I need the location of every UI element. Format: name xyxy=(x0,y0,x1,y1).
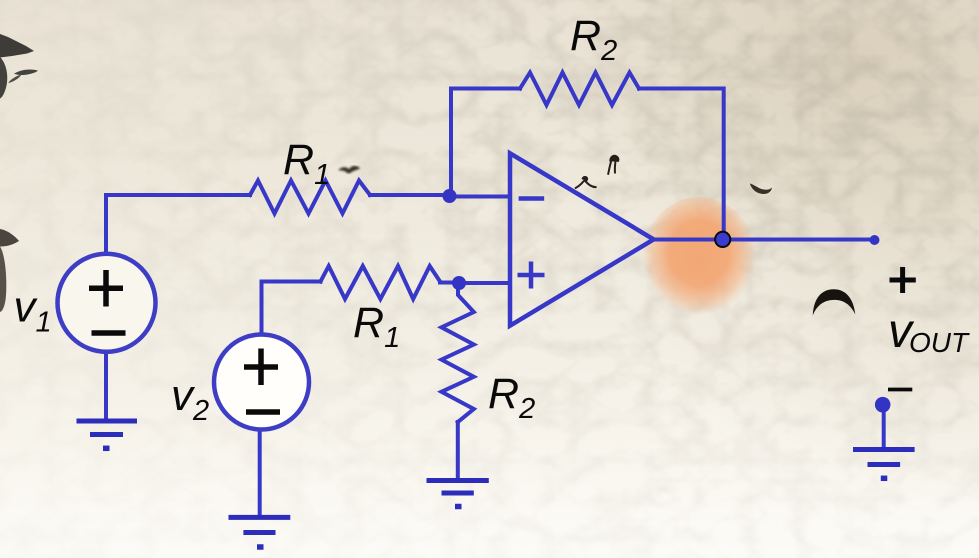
wire v2 top to R1 lower xyxy=(262,282,321,334)
op-amp U1 xyxy=(510,153,654,325)
wire R2 vertical to ground xyxy=(456,422,460,478)
wire R1 to inverting node xyxy=(370,193,449,197)
small bird near op-amp (left) xyxy=(576,177,596,188)
wire non-inverting node to op-amp xyxy=(459,281,510,285)
wire vout ground stem xyxy=(882,405,886,448)
wire feedback left vertical xyxy=(451,89,520,197)
ground at vout xyxy=(853,450,915,479)
wire R1 lower to non-inverting node xyxy=(440,281,459,285)
wire v1 top to R1 xyxy=(106,195,250,253)
small blurred bird near R1 xyxy=(338,166,360,173)
v1 plus sign xyxy=(89,270,123,307)
small curved mark right of output xyxy=(750,184,772,195)
wire inverting node to op-amp xyxy=(449,195,510,199)
decorative brush bird left-middle xyxy=(0,229,19,247)
small bird near op-amp (right) xyxy=(608,156,618,174)
v1 minus sign xyxy=(92,330,126,336)
v2 minus sign xyxy=(246,409,280,415)
resistor R1 (top) xyxy=(250,181,370,214)
vout terminal dot xyxy=(875,397,891,413)
voltage source v1 xyxy=(58,254,156,352)
op-amp plus input symbol xyxy=(518,262,545,289)
op-amp minus input symbol xyxy=(519,196,545,201)
wire op-amp output xyxy=(654,238,875,242)
output end dot xyxy=(870,235,880,245)
wire v2 bottom to ground xyxy=(258,432,262,516)
wire R2 to output corner xyxy=(639,89,724,240)
orange glow behind op-amp output xyxy=(642,197,756,321)
v2 plus sign xyxy=(244,349,278,386)
decorative brush bird top-left xyxy=(0,34,34,58)
voltage source v2 xyxy=(214,335,309,430)
label vout plus xyxy=(890,267,916,293)
junction node at inverting input xyxy=(443,189,457,203)
resistor R2 (vertical) xyxy=(442,283,474,422)
resistor R2 (feedback) xyxy=(520,73,639,106)
crescent bird far right xyxy=(813,289,856,315)
ground under v2 xyxy=(229,517,291,547)
label vout minus xyxy=(888,388,912,392)
wire v1 bottom to ground xyxy=(104,353,108,419)
resistor R1 (lower) xyxy=(321,266,441,299)
junction node at non-inverting input xyxy=(452,276,466,290)
output node with black ring xyxy=(715,232,730,247)
ground under R2 vertical xyxy=(427,481,489,507)
ground under v1 xyxy=(77,421,138,448)
